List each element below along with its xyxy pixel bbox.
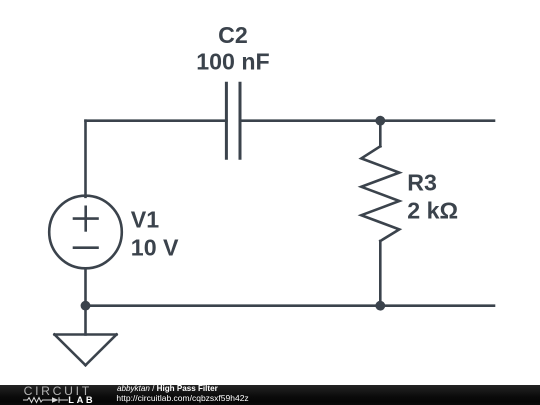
svg-text:100 nF: 100 nF	[196, 48, 269, 74]
node bottom-right junction	[375, 301, 385, 311]
CircuitLab logo LAB	[68, 396, 95, 404]
node bottom-left junction	[81, 301, 91, 311]
logo squiggle (resistor + diode)	[23, 395, 69, 405]
wire top horizontal right segment	[240, 119, 494, 122]
wire top horizontal left segment	[86, 119, 227, 122]
capacitor C2	[226, 83, 240, 158]
svg-text:2 kΩ: 2 kΩ	[407, 198, 458, 224]
footer bar	[0, 385, 540, 405]
wire bottom-left vertical	[84, 268, 87, 334]
ground	[55, 335, 117, 366]
wire top-left vertical	[84, 121, 87, 197]
svg-text:R3: R3	[407, 170, 437, 196]
wire bottom horizontal	[86, 304, 495, 307]
node top junction	[375, 116, 385, 126]
svg-text:V1: V1	[131, 206, 159, 232]
voltage source V1	[49, 196, 122, 269]
footer title line 1	[117, 385, 218, 393]
svg-text:10 V: 10 V	[131, 235, 179, 261]
footer url line 2	[116, 394, 248, 403]
CircuitLab logo CIRCUIT	[24, 384, 92, 398]
svg-text:C2: C2	[218, 22, 248, 48]
resistor R3	[361, 121, 399, 306]
